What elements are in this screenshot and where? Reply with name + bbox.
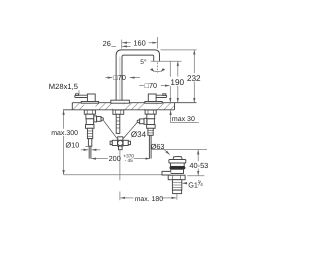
dimension max.180 line (121, 197, 177, 199)
pop-up waste seal washer (dark) (170, 166, 186, 169)
svg-text:40-53: 40-53 (189, 161, 208, 170)
waste tail axis extension (176, 194, 178, 200)
center spout threaded stud (116, 114, 120, 133)
G1 1/4 leader arrow (182, 182, 187, 184)
spout outlet axis dashed centreline (157, 62, 159, 72)
right valve threaded tail (148, 128, 153, 135)
dim Ø10 underline tick (85, 146, 89, 148)
dimension 40-53 line upper part (197, 150, 199, 162)
right handle lever end tab (163, 94, 166, 96)
right handle escutcheon (145, 102, 162, 104)
dimension 200 line with outward arrows (91, 158, 150, 160)
svg-text:Ø63: Ø63 (151, 142, 165, 151)
dimension 190 top extension line (151, 60, 182, 62)
tee left nut (112, 140, 117, 145)
dimension 160 right extension line (outlet axis) (157, 37, 159, 49)
max.30 lower arrow (up to deck bottom) (170, 110, 172, 122)
svg-text:max.300: max.300 (51, 130, 78, 137)
tee top collar (118, 137, 123, 141)
rod clevis bracket (162, 171, 171, 175)
faucet centre axis extension down to dimension (119, 150, 121, 181)
right valve hose fitting (points left) (137, 118, 147, 124)
svg-text:Ø34: Ø34 (131, 130, 147, 139)
countertop deck hatched band (72, 103, 174, 110)
left valve threaded tail (87, 128, 92, 138)
svg-text:200: 200 (109, 154, 121, 163)
spout tube outer outline (116, 50, 159, 103)
Ø63 leader arrow to flange (164, 150, 170, 155)
text G1 1/4 (188, 179, 203, 189)
square70 first right arrow (130, 77, 140, 79)
left valve flexible tail Ø10 (89, 146, 91, 158)
left handle lever (75, 95, 88, 97)
spout tube inner outline (122, 55, 154, 103)
left handle cap (87, 94, 95, 102)
text square70 second leader dash (139, 85, 144, 87)
right valve body (147, 114, 155, 119)
max.30 upper arrow line (down to deck top) (169, 61, 171, 102)
right valve flexible tail (149, 135, 151, 158)
tee center boss circle (118, 140, 123, 145)
pop-up waste flange (169, 160, 186, 164)
deck bottom line (63, 109, 175, 111)
M28x1.5 leader line (78, 90, 80, 94)
left valve lower body (86, 119, 93, 125)
pop-up waste neck (171, 163, 185, 166)
svg-text:□70: □70 (113, 73, 126, 82)
svg-text:□70: □70 (145, 81, 158, 90)
svg-text:190: 190 (170, 78, 184, 87)
dim Ø10 arrows (81, 149, 100, 151)
tee right nut (123, 140, 128, 145)
right handle cap (148, 94, 156, 102)
dimension 40-53 bottom extension line (187, 175, 204, 177)
deck top line (72, 102, 196, 104)
square70 second arrow to 190 (161, 85, 170, 87)
waste tail open end (173, 190, 182, 194)
svg-text:232: 232 (187, 74, 201, 83)
right valve locknut below deck (145, 110, 156, 114)
max.300 dimension line (63, 110, 65, 175)
tee bottom stub (119, 146, 123, 150)
tee left tip (110, 141, 112, 144)
left valve body (86, 114, 94, 119)
right handle lever (153, 95, 166, 97)
text 232 on white (187, 73, 202, 83)
right flexible hose to tee (123, 122, 137, 138)
waste threaded tailpiece (172, 180, 181, 190)
text max.300 on white (51, 129, 79, 137)
spout riser shading line (119, 57, 121, 103)
Ø63 label shelf line (151, 149, 208, 151)
square70 first left arrow (105, 77, 112, 79)
svg-text:Ø10: Ø10 (66, 140, 80, 149)
dimension 160 line with arrows (122, 42, 157, 44)
tee center body (118, 140, 124, 146)
svg-text:G1: G1 (188, 180, 198, 189)
waste locknut (168, 175, 185, 180)
dimension 232 top extension line (161, 49, 197, 51)
pop-up waste body with rod clevis (171, 169, 184, 173)
left valve block (86, 125, 95, 129)
svg-text:160: 160 (133, 38, 145, 47)
left handle escutcheon (81, 102, 98, 104)
swivel arc 5 degrees (150, 68, 165, 72)
left valve locknut below deck (84, 110, 95, 114)
dimension 26 text tick (111, 45, 116, 47)
pop-up waste knob cap (173, 157, 182, 160)
right valve block (147, 125, 156, 129)
right valve lower body (147, 119, 154, 125)
dimension 190 line with arrows (177, 61, 179, 102)
dimension 232 line with arrows (193, 50, 195, 103)
left flexible hose to tee (103, 120, 117, 138)
spout escutcheon (center base plate) (111, 100, 130, 103)
deck right edge (174, 103, 176, 110)
svg-text:26: 26 (103, 39, 111, 48)
svg-text:max 30: max 30 (172, 116, 195, 123)
svg-text:max. 180: max. 180 (135, 196, 164, 203)
svg-text:- 45: - 45 (125, 158, 133, 163)
dimension 26 arrow (122, 45, 130, 47)
max.30 label shelf line (171, 122, 199, 124)
left handle lever end tab (76, 94, 79, 96)
svg-text:5°: 5° (140, 59, 147, 66)
deck left edge (71, 103, 73, 110)
svg-text:4: 4 (200, 182, 203, 187)
svg-text:M28x1,5: M28x1,5 (49, 82, 78, 91)
left valve lower tube (88, 139, 91, 147)
dimension 160 left extension line (121, 40, 123, 49)
center spout locknut below deck (113, 110, 124, 114)
tee right tip (128, 141, 130, 144)
text 190 on white (170, 77, 187, 88)
left valve hose fitting (points right) (94, 116, 104, 122)
pop-up rod horizontal line (64, 174, 163, 176)
dimension 40-53 line lower part (197, 169, 199, 176)
